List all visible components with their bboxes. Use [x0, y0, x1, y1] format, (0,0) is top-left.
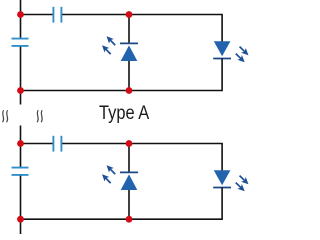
LED D3 (bottom circuit, middle, pointing up) [120, 172, 138, 190]
wire: top rail left segment (bottom circuit) [21, 143, 53, 145]
wire: middle branch upper (top circuit) [128, 15, 130, 45]
break marks left pair (wire continuation squiggles) [3, 110, 8, 122]
wire: left vertical lower (bottom circuit) [20, 176, 22, 234]
LED D2 (top circuit, right, pointing down) [213, 41, 231, 58]
wire: middle branch lower (bottom circuit) [128, 189, 130, 219]
node: junction dot top-middle (top circuit) [126, 11, 133, 18]
LED D3 light arrows [100, 163, 118, 186]
wire: bottom rail + right side up to LED D4 (bottom circuit) [21, 188, 223, 220]
LED D4 (bottom circuit, right, pointing down) [213, 170, 231, 187]
wire: left vertical lower (top circuit) [20, 47, 22, 105]
node: junction dot top-middle (bottom circuit) [126, 140, 133, 147]
node: junction dot bottom-middle (top circuit) [126, 87, 133, 94]
wire: left vertical upper (top circuit) [20, 0, 22, 38]
wire: bottom rail + right side up to LED D2 (top circuit) [21, 59, 223, 91]
wire: top rail left segment (top circuit) [21, 14, 53, 16]
wire: middle branch upper (bottom circuit) [128, 144, 130, 174]
node: junction dot bottom-middle (bottom circuit) [126, 216, 133, 223]
wire: middle branch lower (top circuit) [128, 60, 130, 91]
node: junction dot top-left (bottom circuit) [17, 140, 24, 147]
wire: top rail right segment + right side down to LED D2 (top circuit) [62, 15, 222, 42]
node: junction dot bottom-left (bottom circuit) [17, 216, 24, 223]
capacitor C1 series capacitor (top circuit) [53, 7, 61, 23]
node: junction dot bottom-left (top circuit) [17, 87, 24, 94]
wire: left vertical upper (bottom circuit) [20, 126, 22, 167]
LED D1 (top circuit, middle, pointing up) [120, 43, 138, 61]
capacitor C2 shunt capacitor (top circuit) [12, 39, 29, 46]
wire: top rail right segment + right side down to LED D4 (bottom circuit) [62, 144, 222, 171]
LED D1 light arrows [100, 34, 118, 57]
label Type A [99, 103, 149, 125]
LED D4 light arrows [233, 173, 250, 193]
capacitor C3 series capacitor (bottom circuit) [53, 136, 61, 152]
node: junction dot top-left (top circuit) [17, 11, 24, 18]
LED D2 light arrows [233, 44, 250, 64]
capacitor C4 shunt capacitor (bottom circuit) [12, 168, 29, 175]
break marks right pair (wire continuation squiggles) [37, 110, 42, 122]
